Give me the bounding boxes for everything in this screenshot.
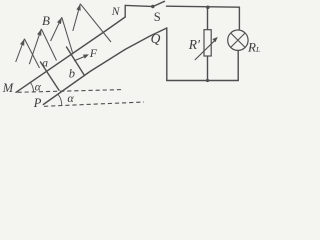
wire N vertical: [124, 5, 126, 17]
rheostat arrow: [195, 37, 218, 60]
svg-text:R′: R′: [188, 37, 201, 52]
svg-text:F: F: [89, 46, 98, 60]
svg-text:α: α: [35, 81, 42, 93]
resistor R' body: [204, 30, 211, 56]
bottom wire: [167, 80, 238, 82]
svg-text:α: α: [67, 91, 74, 105]
junction dot R' bottom: [206, 79, 209, 82]
svg-text:M: M: [2, 81, 14, 95]
lamp circle: [228, 30, 248, 50]
dashed line from M: [18, 90, 123, 93]
rail PQ: [43, 28, 167, 105]
angle arc at M: [30, 82, 34, 92]
B field arrow 1: [16, 39, 40, 68]
junction dot R' top: [206, 6, 210, 10]
force F arrow: [74, 54, 89, 60]
rod b: [67, 47, 85, 75]
lamp X: [231, 33, 245, 47]
dashed line from P: [44, 102, 144, 106]
svg-text:N: N: [111, 6, 121, 18]
wire switch to corner: [167, 6, 240, 7]
B field arrow 4: [73, 4, 111, 42]
svg-text:P: P: [33, 96, 42, 110]
rod a: [41, 62, 60, 90]
switch contact dot: [151, 5, 154, 8]
B field arrow 2: [29, 29, 56, 64]
svg-text:b: b: [69, 67, 75, 81]
lamp vertical bottom: [237, 50, 239, 80]
switch S lever: [153, 1, 165, 6]
svg-text:B: B: [42, 13, 50, 28]
wire top left to switch: [125, 5, 151, 6]
svg-text:a: a: [42, 57, 48, 69]
wire right down to lamp: [238, 7, 240, 30]
rail MN: [16, 17, 125, 92]
svg-text:Q: Q: [151, 31, 161, 46]
B field arrow 3: [51, 17, 73, 52]
svg-text:S: S: [154, 10, 161, 24]
angle arc at P: [58, 94, 62, 106]
R' branch top wire: [207, 7, 209, 30]
R' branch bottom wire: [207, 56, 209, 81]
wire left vertical up to Q: [166, 28, 168, 81]
